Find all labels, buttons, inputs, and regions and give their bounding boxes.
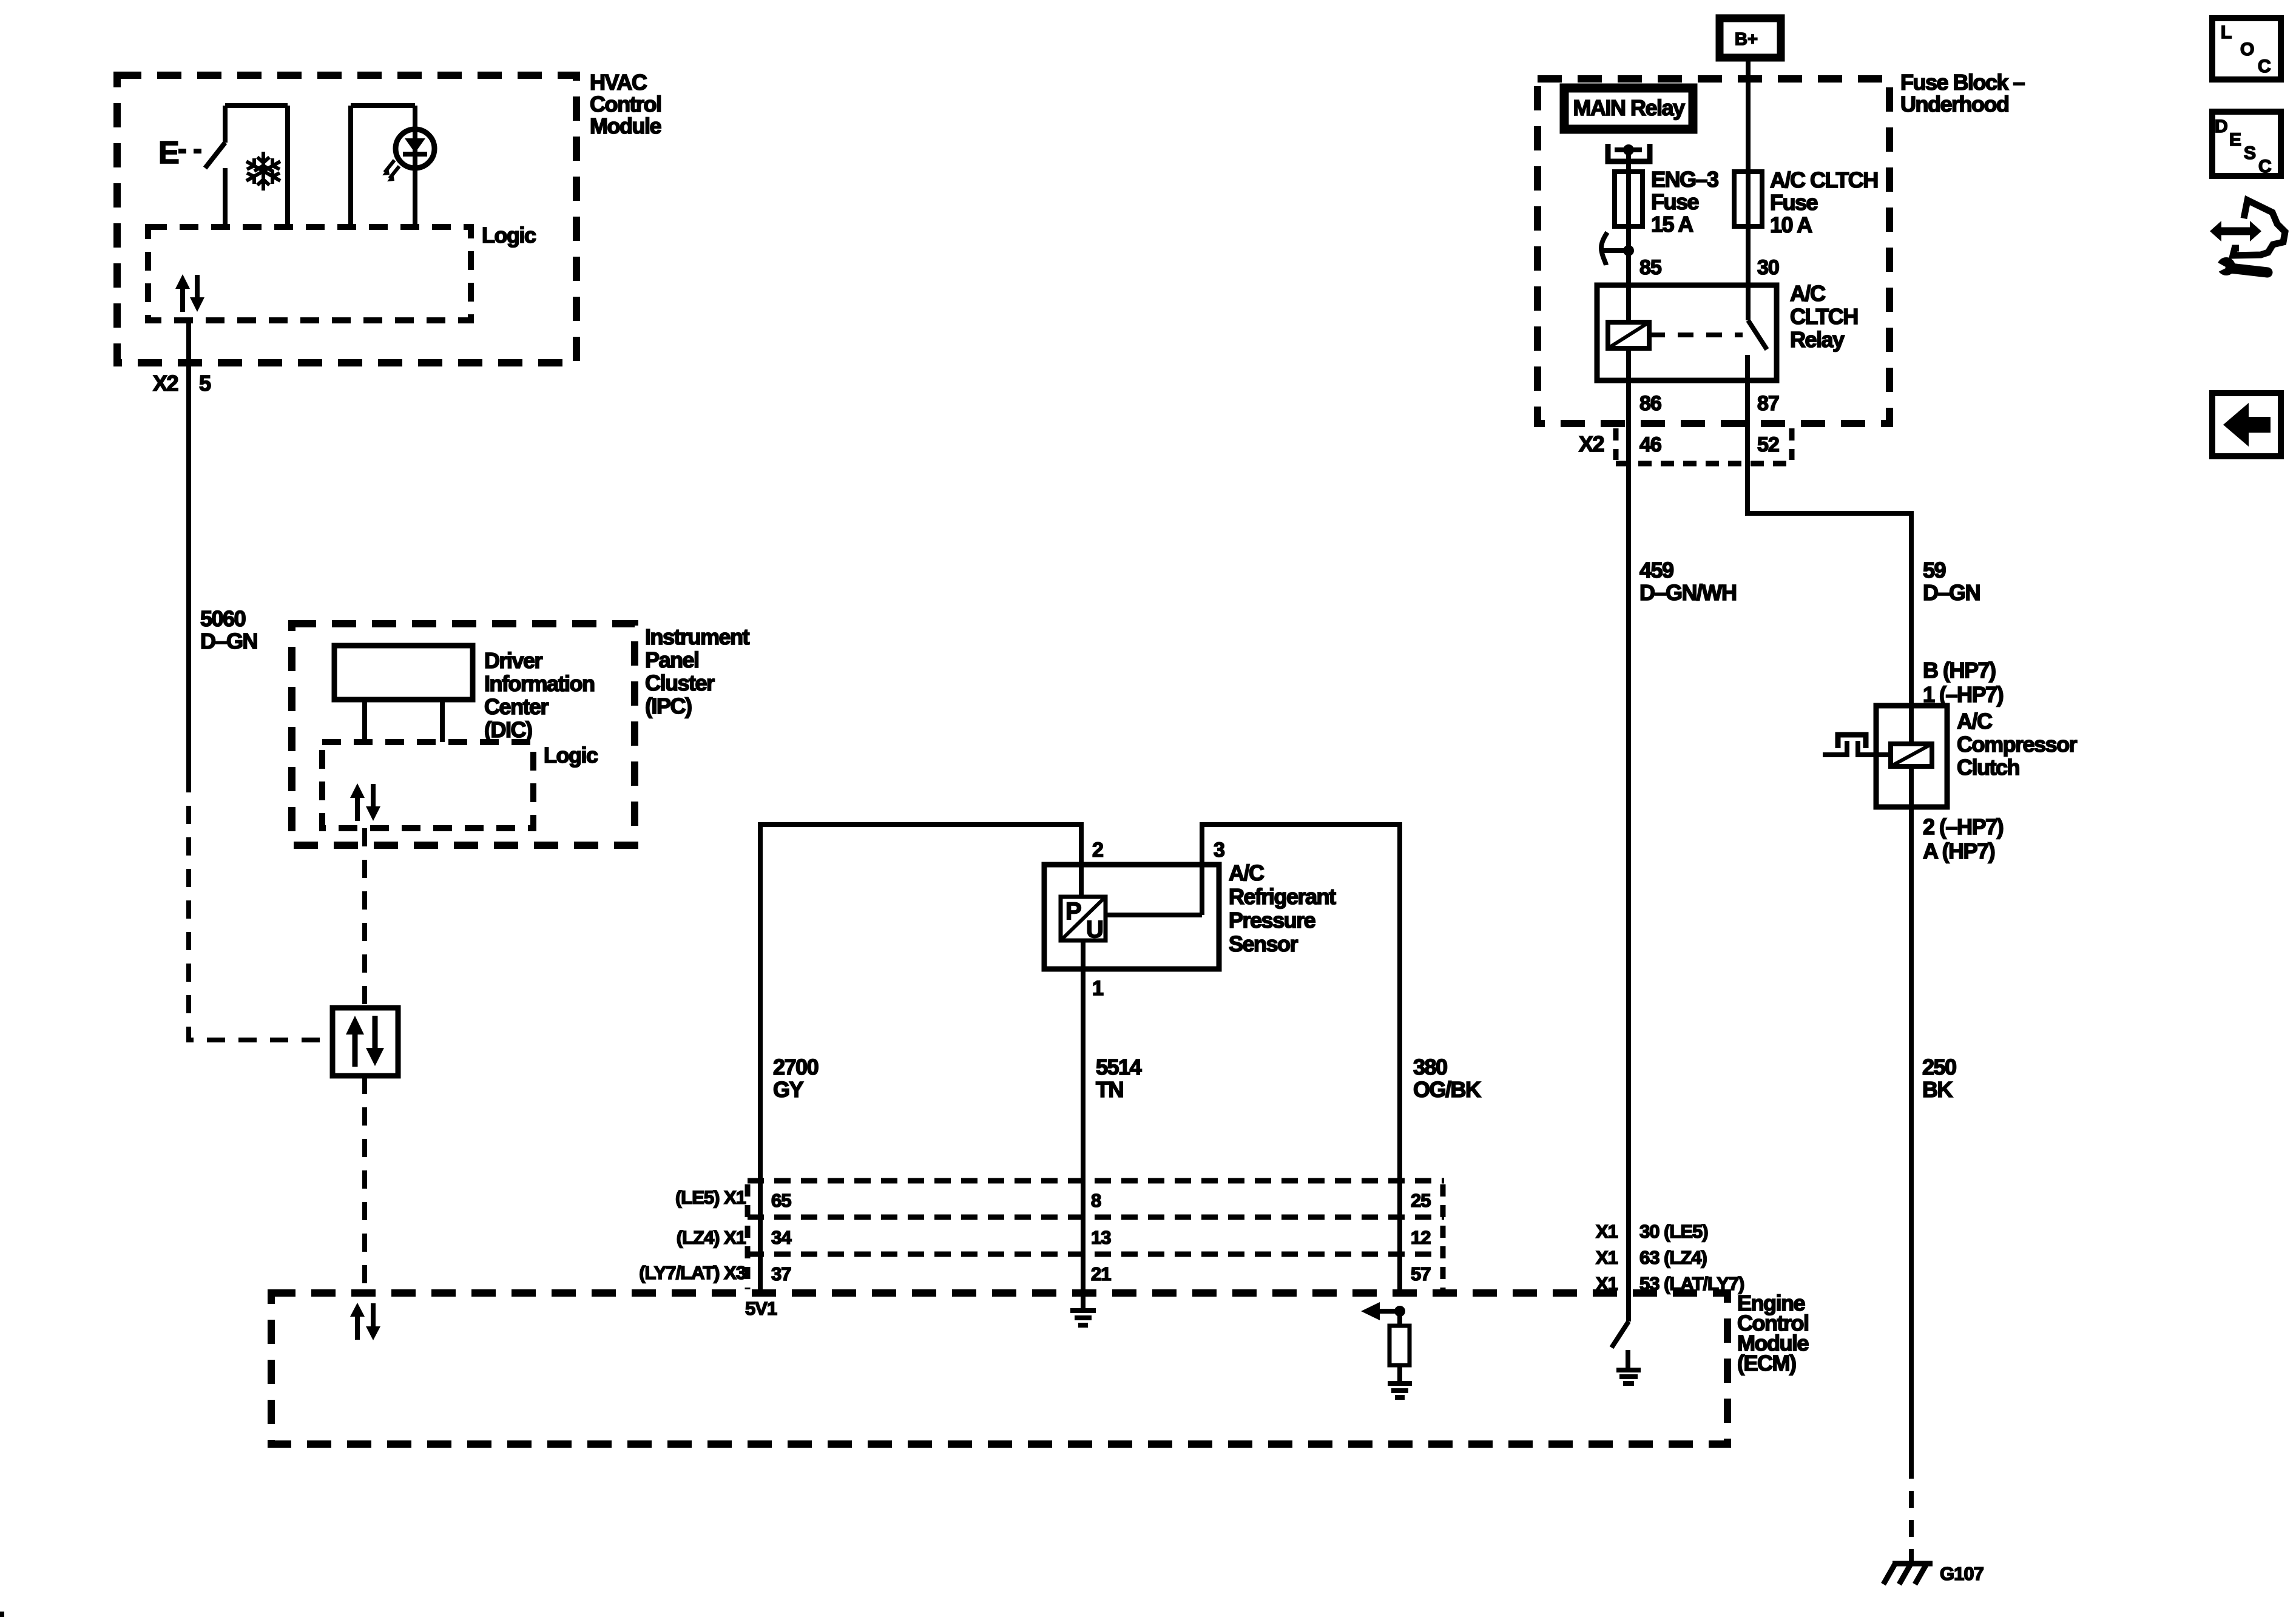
MAIN Relay feed clip bbox=[1608, 144, 1650, 172]
icon wrench bbox=[2213, 257, 2267, 275]
svg-text:25: 25 bbox=[1411, 1190, 1431, 1211]
icon LOC box bbox=[2212, 18, 2281, 79]
svg-text:B (HP7): B (HP7) bbox=[1923, 658, 1996, 683]
snowflake A/C icon bbox=[246, 152, 280, 191]
fuse ENG-3 15A bbox=[1615, 172, 1643, 226]
serial data arrows (HVAC logic) bbox=[175, 274, 204, 312]
svg-text:Panel: Panel bbox=[645, 647, 699, 672]
svg-text:13: 13 bbox=[1091, 1227, 1111, 1248]
svg-text:380: 380 bbox=[1413, 1055, 1447, 1079]
A/C on-off thermal switch (HVAC) bbox=[205, 106, 288, 227]
wire label 250 BK bbox=[1922, 1055, 1956, 1102]
svg-text:30: 30 bbox=[1757, 256, 1779, 279]
wire junction to resistor and ground bbox=[1397, 1311, 1402, 1383]
wire label 5514 TN bbox=[1096, 1055, 1142, 1102]
clutch pin labels bottom bbox=[1923, 814, 2004, 863]
Driver Information Center box bbox=[334, 646, 473, 700]
connector row labels left bbox=[639, 1187, 746, 1283]
svg-text:U: U bbox=[1086, 916, 1104, 943]
svg-text:37: 37 bbox=[771, 1263, 791, 1284]
svg-text:P: P bbox=[1065, 898, 1082, 925]
wire 250 BK dashed tail bbox=[1909, 1462, 1914, 1564]
svg-text:TN: TN bbox=[1096, 1077, 1123, 1102]
icon DESC box bbox=[2212, 112, 2281, 177]
svg-text:12: 12 bbox=[1411, 1227, 1430, 1248]
ECM driver switch to ground bbox=[1612, 1293, 1629, 1370]
node: signal junction (OG/BK) bbox=[1394, 1306, 1405, 1317]
svg-text:57: 57 bbox=[1411, 1263, 1430, 1284]
svg-text:2: 2 bbox=[1092, 839, 1103, 862]
clutch pin labels top bbox=[1923, 658, 2004, 707]
svg-text:250: 250 bbox=[1922, 1055, 1956, 1079]
svg-text:D: D bbox=[2215, 116, 2228, 137]
svg-text:46: 46 bbox=[1639, 433, 1661, 456]
serial data arrows (ECM) bbox=[350, 1303, 380, 1340]
wire 459 D-GN/WH (relay 86 to ECM) bbox=[1626, 380, 1631, 1293]
A/C CLTCH Relay box bbox=[1597, 285, 1777, 380]
svg-text:63 (LZ4): 63 (LZ4) bbox=[1639, 1247, 1707, 1268]
svg-text:Fuse: Fuse bbox=[1770, 190, 1818, 215]
svg-text:Relay: Relay bbox=[1790, 327, 1845, 352]
wire label 2700 GY bbox=[773, 1055, 819, 1102]
svg-text:Underhood: Underhood bbox=[1900, 92, 2008, 116]
B+ terminal bbox=[1720, 18, 1781, 58]
E actuator link bbox=[158, 135, 209, 170]
connector left edge ticks bbox=[745, 1184, 751, 1289]
svg-text:5V1: 5V1 bbox=[745, 1298, 777, 1319]
svg-text:8: 8 bbox=[1091, 1190, 1101, 1211]
svg-text:BK: BK bbox=[1922, 1077, 1953, 1102]
svg-text:2 (–HP7): 2 (–HP7) bbox=[1923, 814, 2004, 839]
wire label 59 D-GN bbox=[1923, 558, 1980, 605]
IPC label bbox=[645, 624, 750, 718]
clutch mechanical link bbox=[1823, 735, 1891, 757]
svg-text:E: E bbox=[2229, 130, 2241, 150]
svg-text:L: L bbox=[2221, 22, 2232, 42]
A/C Refrigerant Pressure Sensor box bbox=[1044, 865, 1219, 969]
MAIN Relay label box bbox=[1564, 88, 1693, 129]
svg-text:A/C: A/C bbox=[1229, 860, 1264, 885]
svg-text:C: C bbox=[2258, 157, 2272, 177]
wire label 380 OG/BK bbox=[1413, 1055, 1481, 1102]
relay actuating link (dashed) bbox=[1649, 333, 1743, 337]
svg-text:O: O bbox=[2240, 39, 2254, 59]
svg-text:G107: G107 bbox=[1940, 1563, 1984, 1584]
ground (TN low reference) bbox=[1070, 1311, 1096, 1325]
svg-text:87: 87 bbox=[1757, 392, 1779, 415]
Fuse Block label bbox=[1900, 70, 2025, 116]
svg-text:(ECM): (ECM) bbox=[1737, 1351, 1796, 1376]
svg-text:459: 459 bbox=[1639, 558, 1673, 582]
wire 250 BK bbox=[1909, 807, 1914, 1462]
svg-text:OG/BK: OG/BK bbox=[1413, 1077, 1481, 1102]
svg-text:Cluster: Cluster bbox=[645, 670, 715, 695]
ground (ECM driver) bbox=[1616, 1370, 1641, 1383]
svg-text:Pressure: Pressure bbox=[1229, 908, 1315, 933]
svg-text:Fuse: Fuse bbox=[1651, 189, 1699, 214]
svg-text:Instrument: Instrument bbox=[645, 624, 750, 649]
svg-text:15 A: 15 A bbox=[1651, 212, 1693, 237]
HVAC Control Module box bbox=[117, 75, 576, 363]
svg-text:(LZ4) X1: (LZ4) X1 bbox=[677, 1227, 746, 1248]
transducer to pin3 internal wire bbox=[1106, 913, 1202, 917]
svg-text:5: 5 bbox=[199, 371, 211, 396]
chassis ground G107 bbox=[1883, 1563, 1933, 1584]
svg-text:59: 59 bbox=[1923, 558, 1946, 582]
svg-text:A/C: A/C bbox=[1957, 709, 1993, 734]
svg-text:1: 1 bbox=[1092, 977, 1103, 1000]
svg-text:S: S bbox=[2244, 143, 2256, 163]
fuse lower clip and tap bbox=[1601, 226, 1634, 285]
serial data wire (dashed) HVAC to splice bbox=[189, 774, 333, 1040]
svg-text:Center: Center bbox=[484, 694, 549, 719]
svg-text:10 A: 10 A bbox=[1770, 212, 1812, 237]
svg-text:86: 86 bbox=[1639, 392, 1661, 415]
LED indicator (HVAC) bbox=[351, 106, 434, 227]
svg-text:A (HP7): A (HP7) bbox=[1923, 839, 1995, 863]
svg-text:X2: X2 bbox=[1579, 431, 1604, 456]
icon vehicle double arrow bbox=[2210, 221, 2261, 241]
svg-text:Sensor: Sensor bbox=[1229, 931, 1298, 956]
svg-text:HVAC: HVAC bbox=[590, 70, 647, 95]
wire HVAC logic to X2 pin 5 (5060 D-GN) bbox=[186, 320, 191, 774]
svg-text:MAIN Relay: MAIN Relay bbox=[1573, 95, 1685, 120]
svg-text:C: C bbox=[2258, 56, 2271, 76]
svg-text:CLTCH: CLTCH bbox=[1790, 304, 1858, 329]
fuse A/C CLTCH 10A bbox=[1734, 172, 1762, 285]
serial data arrows (gateway) bbox=[346, 1016, 384, 1067]
wire 59 D-GN (relay 87 to clutch) bbox=[1747, 380, 1911, 707]
A/C Compressor Clutch box bbox=[1876, 706, 1947, 807]
svg-text:85: 85 bbox=[1639, 256, 1661, 279]
relay switch bbox=[1747, 285, 1767, 380]
svg-text:B+: B+ bbox=[1735, 30, 1758, 49]
svg-text:D–GN: D–GN bbox=[1923, 580, 1980, 605]
sensor label bbox=[1229, 860, 1336, 956]
ECM right pin labels bbox=[1596, 1221, 1744, 1294]
svg-text:(IPC): (IPC) bbox=[645, 694, 692, 718]
svg-text:3: 3 bbox=[1214, 839, 1224, 862]
svg-text:D–GN/WH: D–GN/WH bbox=[1639, 580, 1737, 605]
svg-text:X1: X1 bbox=[1596, 1221, 1618, 1242]
page corner mark bbox=[0, 1612, 4, 1617]
svg-text:65: 65 bbox=[771, 1190, 791, 1211]
wire 5514 TN (pin 1) bbox=[1081, 940, 1086, 1311]
connector right edge ticks bbox=[1440, 1184, 1446, 1289]
svg-text:Driver: Driver bbox=[484, 648, 543, 673]
svg-text:X2: X2 bbox=[153, 371, 178, 396]
icon back-arrow box bbox=[2212, 393, 2281, 456]
HVAC Control Module label bbox=[590, 70, 661, 138]
A/C CLTCH fuse label bbox=[1770, 167, 1878, 237]
svg-text:Information: Information bbox=[484, 671, 594, 696]
svg-text:GY: GY bbox=[773, 1077, 804, 1102]
svg-text:Fuse Block –: Fuse Block – bbox=[1900, 70, 2025, 95]
Engine Control Module box bbox=[271, 1293, 1727, 1444]
ECM connector row lines bbox=[748, 1181, 1444, 1254]
svg-text:30 (LE5): 30 (LE5) bbox=[1639, 1221, 1708, 1242]
svg-text:A/C: A/C bbox=[1790, 281, 1826, 306]
Instrument Panel Cluster box bbox=[292, 624, 635, 845]
svg-text:Control: Control bbox=[590, 92, 661, 116]
svg-text:(LY7/LAT) X3: (LY7/LAT) X3 bbox=[639, 1262, 746, 1283]
DIC label bbox=[484, 648, 594, 742]
serial data arrows (IPC logic) bbox=[350, 783, 380, 821]
svg-text:5514: 5514 bbox=[1096, 1055, 1142, 1079]
svg-text:2700: 2700 bbox=[773, 1055, 819, 1079]
serial wire gateway to ECM bbox=[362, 1076, 367, 1293]
svg-text:52: 52 bbox=[1757, 433, 1779, 456]
svg-text:Compressor: Compressor bbox=[1957, 732, 2078, 757]
svg-text:X1: X1 bbox=[1596, 1273, 1618, 1294]
X2 connector (fuse block) bbox=[1616, 428, 1792, 464]
svg-text:Clutch: Clutch bbox=[1957, 755, 2019, 780]
serial wire IPC to gateway box bbox=[362, 828, 367, 1008]
ENG-3 fuse label bbox=[1651, 167, 1718, 237]
wire 380 OG/BK upper run bbox=[1202, 825, 1400, 1293]
clutch coil bbox=[1891, 706, 1932, 807]
serial data gateway box bbox=[333, 1008, 398, 1076]
svg-text:X1: X1 bbox=[1596, 1247, 1618, 1268]
DIC stubs to logic bbox=[365, 700, 442, 742]
svg-text:21: 21 bbox=[1091, 1263, 1111, 1284]
wire 2700 GY (5V reference) bbox=[760, 825, 1081, 1293]
icon vehicle outline bbox=[2233, 200, 2285, 255]
pressure transducer P/U box bbox=[1061, 897, 1106, 943]
wire label 459 D-GN/WH bbox=[1639, 558, 1737, 605]
Fuse Block - Underhood box bbox=[1538, 79, 1889, 424]
svg-text:Module: Module bbox=[590, 113, 661, 138]
HVAC Logic box bbox=[148, 227, 471, 320]
A/C CLTCH Relay label bbox=[1790, 281, 1858, 352]
signal arrow to other circuits bbox=[1361, 1302, 1400, 1320]
svg-text:(DIC): (DIC) bbox=[484, 717, 532, 742]
wire B+ to fuse bbox=[1746, 58, 1751, 172]
svg-text:ENG–3: ENG–3 bbox=[1651, 167, 1718, 192]
svg-text:Refrigerant: Refrigerant bbox=[1229, 884, 1336, 909]
svg-text:E: E bbox=[158, 135, 180, 170]
svg-text:Logic: Logic bbox=[544, 743, 598, 768]
svg-text:(LE5) X1: (LE5) X1 bbox=[675, 1187, 746, 1208]
svg-text:34: 34 bbox=[771, 1227, 792, 1248]
ECM label bbox=[1737, 1291, 1808, 1376]
svg-text:A/C CLTCH: A/C CLTCH bbox=[1770, 167, 1878, 192]
svg-text:D–GN: D–GN bbox=[200, 629, 257, 653]
resistor (ECM pull) bbox=[1389, 1326, 1410, 1365]
IPC Logic box bbox=[322, 742, 533, 828]
wire label 5060 D-GN bbox=[200, 606, 257, 653]
svg-text:Logic: Logic bbox=[482, 223, 536, 248]
svg-text:53 (LAT/LY7): 53 (LAT/LY7) bbox=[1639, 1273, 1744, 1294]
svg-text:5060: 5060 bbox=[200, 606, 246, 631]
ground (OG/BK) bbox=[1388, 1383, 1412, 1397]
A/C Compressor Clutch label bbox=[1957, 709, 2078, 780]
relay coil bbox=[1608, 285, 1649, 380]
